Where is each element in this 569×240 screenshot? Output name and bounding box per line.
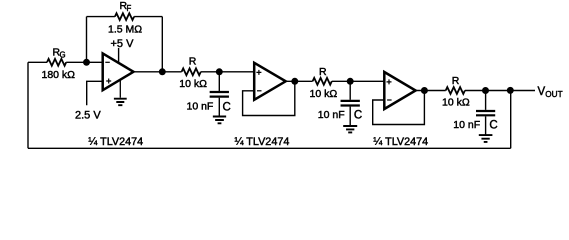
label RF xyxy=(120,0,132,13)
svg-text:¼ TLV2474: ¼ TLV2474 xyxy=(373,136,428,148)
wire: op1 output to R1 xyxy=(134,71,182,73)
label op1 minus xyxy=(105,61,110,63)
resistor R1 xyxy=(182,68,201,75)
node: op3 output junction xyxy=(421,87,428,94)
node: op1 inverting input junction xyxy=(83,59,90,66)
wire: RF right vertical down to op1 output xyxy=(161,17,163,72)
wire: RG to inverting input node xyxy=(66,61,103,63)
node: R3-C3 junction xyxy=(482,87,489,94)
resistor RF xyxy=(115,13,134,20)
label R1 xyxy=(189,56,197,68)
wire: op3 feedback loop xyxy=(373,91,425,125)
label op3 minus xyxy=(387,99,392,101)
svg-text:G: G xyxy=(60,50,66,59)
wire: op2 output xyxy=(286,80,313,82)
label C2 C xyxy=(354,109,362,121)
label R2 10 kOhm xyxy=(310,88,338,100)
svg-text:R: R xyxy=(189,56,197,68)
ground: op1 power ground xyxy=(114,80,127,105)
wire: op3 output xyxy=(416,90,446,92)
node: R2-C2 junction xyxy=(347,78,354,85)
svg-text:C: C xyxy=(354,109,362,121)
svg-text:1.5 MΩ: 1.5 MΩ xyxy=(108,23,142,35)
label R3 10 kOhm xyxy=(442,96,470,108)
wire: right feedback rail xyxy=(510,91,512,149)
svg-text:2.5 V: 2.5 V xyxy=(75,109,101,121)
wire: op1 noninverting input xyxy=(87,81,103,105)
wire: +5V stub into op1 xyxy=(118,48,120,64)
node: R1-C1 junction xyxy=(216,68,223,75)
ground: C1 xyxy=(213,117,226,124)
wire: left feedback rail xyxy=(27,62,29,148)
svg-text:+5 V: +5 V xyxy=(111,38,135,50)
svg-text:¼ TLV2474: ¼ TLV2474 xyxy=(88,136,143,148)
ground: C2 xyxy=(343,126,357,132)
label VOUT xyxy=(538,86,563,99)
node: overall feedback tap xyxy=(507,87,514,94)
label +5 V xyxy=(111,38,135,50)
label C2 10 nF xyxy=(318,109,345,121)
label C1 10 nF xyxy=(187,101,214,113)
node: op2 output junction xyxy=(291,78,298,85)
capacitor C2 xyxy=(341,81,360,126)
label R2 xyxy=(319,66,327,78)
wire: RF top rail right xyxy=(134,16,162,18)
label R3 xyxy=(452,75,460,87)
wire: R3 to output xyxy=(465,90,535,92)
ground: C3 xyxy=(479,135,493,142)
svg-text:180 kΩ: 180 kΩ xyxy=(42,69,76,81)
op-amp U1 (1/4 TLV2474) xyxy=(103,53,134,90)
label 1.5 MOhm xyxy=(108,23,142,35)
wire: feedback RF left vertical xyxy=(86,17,88,63)
svg-text:10 nF: 10 nF xyxy=(318,109,345,121)
svg-text:C: C xyxy=(223,101,231,113)
resistor R3 xyxy=(446,87,465,94)
label C1 C xyxy=(223,101,231,113)
label 2.5 V xyxy=(75,109,101,121)
label R1 10 kOhm xyxy=(179,78,207,90)
svg-text:OUT: OUT xyxy=(545,90,562,99)
svg-text:V: V xyxy=(538,86,546,98)
capacitor C3 xyxy=(476,91,495,136)
resistor R2 xyxy=(313,78,332,85)
label 1/4 TLV2474 under op2 xyxy=(235,136,290,148)
svg-text:F: F xyxy=(127,4,132,13)
svg-text:10 kΩ: 10 kΩ xyxy=(442,96,470,108)
label 1/4 TLV2474 under op3 xyxy=(373,136,428,148)
label C3 C xyxy=(489,119,497,131)
label op3 plus xyxy=(387,79,392,84)
svg-text:10 kΩ: 10 kΩ xyxy=(310,88,338,100)
svg-text:10 nF: 10 nF xyxy=(187,101,214,113)
node: op1 output / RF junction xyxy=(159,68,166,75)
label RG xyxy=(53,47,66,60)
op-amp U3 (1/4 TLV2474) xyxy=(384,72,415,109)
label 1/4 TLV2474 under op1 xyxy=(88,136,143,148)
svg-text:C: C xyxy=(489,119,497,131)
wire: op2 feedback loop xyxy=(243,81,295,115)
label C3 10 nF xyxy=(453,119,480,131)
label op1 plus xyxy=(106,79,111,84)
svg-text:10 kΩ: 10 kΩ xyxy=(179,78,207,90)
svg-text:R: R xyxy=(319,66,327,78)
op-amp U2 (1/4 TLV2474) xyxy=(254,63,286,100)
wire: RF top rail left xyxy=(87,16,115,18)
capacitor C1 xyxy=(210,72,229,117)
svg-text:¼ TLV2474: ¼ TLV2474 xyxy=(235,136,290,148)
wire: bottom feedback rail xyxy=(28,147,511,149)
wire: R1 to op2 xyxy=(201,71,254,73)
resistor RG xyxy=(47,59,66,66)
label 180 kOhm xyxy=(42,69,76,81)
label op2 minus xyxy=(257,90,262,92)
label op2 plus xyxy=(256,70,261,75)
svg-text:10 nF: 10 nF xyxy=(453,119,480,131)
wire: input to RG xyxy=(28,61,47,63)
wire: R2 to op3 xyxy=(332,80,385,82)
svg-text:R: R xyxy=(452,75,460,87)
